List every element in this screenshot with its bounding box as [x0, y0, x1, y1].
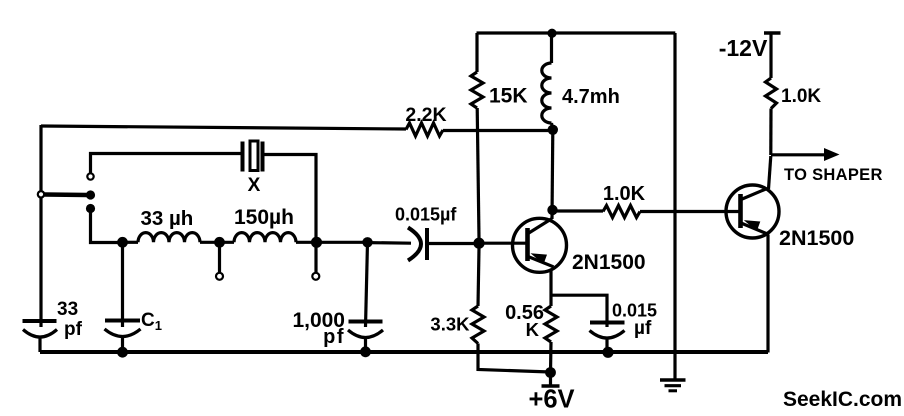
transistor Q2 emitter diagonal — [741, 223, 768, 234]
wire output arrow shaft — [771, 153, 826, 156]
node dot 1000pf bus — [360, 346, 371, 357]
node dot top rail — [547, 29, 556, 38]
node dot crystal junction — [311, 237, 322, 248]
label TO SHAPER — [784, 166, 883, 184]
wire tank to coupling cap — [368, 241, 411, 245]
transistor Q1 collector diagonal — [528, 219, 552, 234]
crystal X body rectangle — [250, 141, 258, 171]
wire Q2 emitter down to bus — [766, 235, 769, 353]
output arrowhead — [824, 148, 840, 161]
-12V terminal bar — [764, 31, 781, 34]
wire emitter branch to bypass cap — [552, 295, 608, 327]
tap stub right — [314, 242, 317, 272]
label 0.015 uf bypass — [612, 301, 657, 340]
wire 1.0K to output node — [769, 109, 772, 156]
svg-text:pf: pf — [323, 326, 345, 348]
crystal X left plate — [241, 142, 245, 172]
tap open terminal left — [216, 273, 223, 280]
capacitor C 1000pf curved plate — [348, 330, 383, 338]
label X — [248, 175, 261, 196]
+6V terminal stub — [549, 373, 552, 385]
node dot collector to 1.0K — [547, 205, 557, 215]
svg-text:1.0K: 1.0K — [781, 86, 821, 107]
capacitor C 0.015uf bypass curved plate — [590, 331, 625, 339]
svg-text:33: 33 — [57, 299, 78, 320]
wire coupling cap to base node — [427, 242, 474, 245]
transistor Q2 emitter arrow — [744, 220, 761, 231]
capacitor C 33pf top plate — [23, 319, 57, 323]
wire 1.0K to Q2 base — [640, 210, 739, 213]
svg-text:15K: 15K — [489, 85, 528, 108]
capacitor C 0.015uf coupling curved plate — [408, 228, 421, 261]
tap stub from 33uh/150uh junction — [218, 242, 221, 272]
tap open terminal right — [312, 273, 319, 280]
wire left vertical rail — [39, 125, 42, 327]
node dot base Q1 — [473, 238, 484, 249]
svg-text:pf: pf — [64, 319, 83, 340]
wire 4.7mh to collector dot — [552, 123, 553, 130]
resistor R 2.2K zigzag — [406, 123, 443, 136]
resistor R 0.56K zigzag — [545, 306, 557, 342]
switch arm wire — [45, 192, 88, 197]
label C1 — [141, 310, 162, 333]
wire Q1 emitter down — [549, 270, 552, 306]
wire 150uh to crystal junction — [296, 241, 368, 244]
capacitor C 1000pf lead from tank — [366, 242, 368, 327]
watermark SeekIC.com — [783, 388, 902, 411]
node dot 1000pf junction — [362, 237, 372, 247]
svg-text:+6V: +6V — [528, 386, 574, 414]
svg-text:1.0K: 1.0K — [603, 183, 646, 205]
wire top feedback left segment — [41, 126, 406, 129]
ground symbol — [660, 380, 686, 391]
transistor Q2 base bar — [738, 194, 743, 228]
svg-text:2.2K: 2.2K — [405, 104, 446, 126]
wire right rail down to ground — [673, 33, 676, 379]
svg-text:33 µh: 33 µh — [141, 207, 194, 230]
inductor L 4.7mh coil — [542, 63, 552, 123]
svg-text:4.7mh: 4.7mh — [562, 86, 620, 108]
wire rail stub to 4.7mh — [550, 33, 553, 63]
wire top rail — [477, 31, 676, 34]
label 4.7mh — [562, 86, 620, 108]
wire from switch down to tank line — [91, 209, 124, 243]
wire ground bus — [40, 350, 768, 354]
transistor Q2 collector diagonal — [741, 189, 767, 200]
node dot 4.7mh bottom — [548, 125, 558, 135]
wire crystal branch left riser — [91, 154, 241, 174]
svg-text:150µh: 150µh — [234, 206, 294, 229]
wire 15K down through 2.2K crossing to base node — [477, 108, 479, 238]
svg-text:-12V: -12V — [719, 35, 768, 61]
label 0.56 K — [505, 302, 544, 340]
capacitor C 33pf curved plate — [23, 330, 57, 338]
capacitor C 1000pf top plate — [349, 320, 383, 324]
wire top feedback right segment — [443, 129, 552, 132]
svg-text:µf: µf — [634, 318, 652, 339]
label 1.0K interstage — [603, 183, 646, 205]
svg-text:SeekIC.com: SeekIC.com — [783, 388, 902, 411]
wire collector to 1.0K — [553, 209, 604, 212]
inductor L2 150uh coil — [234, 233, 296, 243]
transistor Q2 circle — [726, 185, 779, 238]
crystal X right plate — [261, 142, 265, 172]
switch open circle on left rail — [38, 191, 44, 197]
svg-text:TO SHAPER: TO SHAPER — [784, 166, 883, 184]
node dot C1 bus — [117, 347, 128, 358]
capacitor C1 curved plate — [105, 329, 141, 337]
transistor Q1 emitter diagonal — [528, 257, 554, 267]
transistor Q1 emitter arrow — [531, 253, 548, 264]
+6V terminal bar — [542, 384, 560, 387]
label 15K — [489, 85, 528, 108]
wire tank line to 33uh — [123, 241, 139, 244]
resistor R 1.0K output zigzag — [766, 78, 777, 109]
crystal branch open terminal — [87, 173, 93, 179]
label 33 pf — [57, 299, 83, 340]
svg-text:3.3K: 3.3K — [430, 314, 470, 335]
capacitor C1 lead from tank — [121, 242, 124, 327]
label 33 uh — [141, 207, 194, 230]
label 150uh — [234, 206, 294, 229]
node dot between coils — [214, 237, 225, 248]
inductor L1 33uh coil — [138, 233, 200, 243]
transistor Q1 circle — [513, 218, 567, 272]
label 1000 pf — [292, 309, 345, 348]
wire Q1 collector riser — [550, 130, 554, 219]
node dot bypass bus — [602, 347, 613, 358]
wire base node to Q1 base — [482, 242, 526, 245]
resistor R 3.3K zigzag — [472, 306, 484, 344]
svg-text:2N1500: 2N1500 — [779, 226, 854, 250]
wire rail to 15K — [475, 33, 478, 72]
label 2.2K — [405, 104, 446, 126]
node dot tank left — [117, 237, 128, 248]
switch contact dot upper — [86, 190, 95, 199]
wire Q2 collector riser — [769, 156, 771, 189]
wire 3.3K to +6V node — [478, 344, 551, 373]
wire 0.56K to +6V node — [549, 342, 553, 373]
resistor R 15K zigzag — [471, 72, 483, 108]
capacitor C 0.015uf coupling straight plate — [425, 228, 429, 260]
wire base node down to 3.3K — [478, 248, 479, 306]
label 3.3K — [430, 314, 470, 335]
node dot +6V — [545, 367, 556, 378]
wire C1 to bus — [121, 337, 124, 352]
label -12V — [719, 35, 768, 61]
wire crystal branch right segment down to tank — [264, 155, 317, 239]
wire 33pf to bus — [38, 337, 41, 352]
capacitor C1 top plate — [105, 319, 140, 323]
capacitor C 0.015uf bypass top plate — [590, 321, 625, 325]
svg-text:2N1500: 2N1500 — [572, 251, 646, 274]
label 2N1500 Q1 — [572, 251, 646, 274]
wire -12V branch — [769, 34, 772, 79]
svg-text:X: X — [248, 175, 261, 196]
label 0.015uf coupling — [395, 205, 457, 225]
transistor Q1 base bar — [525, 228, 530, 261]
label 2N1500 Q2 — [779, 226, 854, 250]
wire bypass cap to bus — [605, 338, 608, 352]
switch contact dot lower — [86, 204, 95, 213]
label 1.0K output — [781, 86, 821, 107]
label +6V — [528, 386, 574, 414]
svg-text:K: K — [526, 319, 540, 340]
wire between coils — [200, 241, 234, 244]
resistor R 1.0K interstage zigzag — [603, 206, 640, 218]
wire 1000pf to bus — [364, 338, 367, 352]
svg-text:0.015µf: 0.015µf — [395, 205, 457, 225]
